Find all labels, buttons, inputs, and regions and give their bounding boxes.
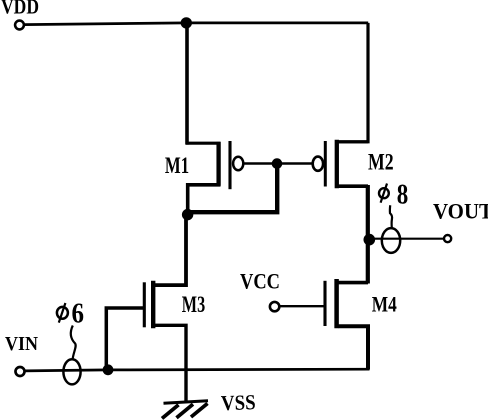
svg-text:VIN: VIN [5, 333, 38, 355]
wire M1 gate to node A and M2 gate [245, 162, 313, 165]
svg-text:M1: M1 [165, 153, 189, 178]
leader line phi6 [71, 326, 76, 360]
wire VDD node to M1 source [185, 23, 189, 145]
svg-text:M4: M4 [372, 292, 397, 317]
wire VIN bottom rail [25, 369, 370, 371]
terminal VDD [15, 21, 24, 30]
wire VDD rail [24, 23, 368, 25]
label phi8 [379, 180, 408, 211]
junction VIN node [103, 364, 114, 375]
annotation ellipse phi6 [63, 359, 80, 384]
svg-text:6: 6 [72, 299, 85, 330]
junction VOUT node [364, 234, 376, 246]
svg-text:VSS: VSS [221, 390, 256, 415]
junction node A (gate node) [272, 158, 283, 169]
terminal VIN [16, 367, 25, 376]
wire M2 drain to VOUT node and M4 drain [366, 185, 370, 284]
terminal VOUT [444, 235, 451, 242]
wire VOUT node to terminal [369, 238, 444, 240]
svg-text:M3: M3 [182, 292, 205, 318]
svg-text:VDD: VDD [1, 0, 39, 19]
svg-text:8: 8 [397, 180, 409, 211]
wire gate-drain tie [187, 164, 278, 213]
annotation ellipse phi8 [382, 228, 400, 253]
svg-text:M2: M2 [368, 150, 394, 176]
svg-text:VOUT: VOUT [433, 199, 488, 224]
ground VSS [162, 401, 208, 419]
svg-text:VCC: VCC [240, 269, 280, 294]
wire VDD rail to M2 source [336, 23, 368, 142]
label phi6 [57, 299, 84, 330]
wire VIN node to M3 gate [106, 308, 144, 370]
leader line phi8 [390, 205, 392, 228]
transistor M4 (NMOS) [325, 279, 368, 370]
junction M1 drain node [182, 209, 193, 220]
wire VCC to M4 gate [280, 305, 324, 307]
transistor M2 (PMOS) [313, 140, 368, 188]
transistor M1 (PMOS, diode-connected) [186, 141, 243, 214]
junction VDD node [181, 17, 192, 28]
terminal VCC [270, 302, 279, 311]
transistor M3 (NMOS) [144, 215, 186, 402]
